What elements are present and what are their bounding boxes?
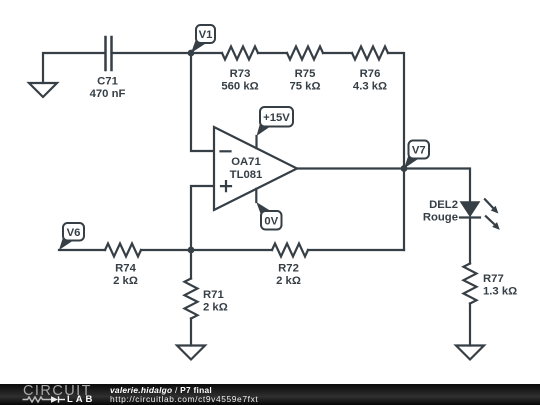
svg-text:2 kΩ: 2 kΩ	[203, 302, 228, 314]
svg-text:+15V: +15V	[263, 112, 290, 124]
svg-text:Rouge: Rouge	[423, 211, 458, 223]
svg-text:R77: R77	[483, 273, 504, 285]
svg-text:75 kΩ: 75 kΩ	[289, 81, 320, 93]
svg-text:R74: R74	[115, 263, 136, 275]
svg-text:2 kΩ: 2 kΩ	[276, 275, 301, 287]
svg-text:560 kΩ: 560 kΩ	[221, 81, 258, 93]
svg-text:1.3 kΩ: 1.3 kΩ	[483, 286, 517, 298]
svg-text:0V: 0V	[264, 216, 278, 228]
svg-text:R71: R71	[203, 289, 224, 301]
svg-text:R76: R76	[360, 68, 381, 80]
svg-text:R73: R73	[230, 68, 251, 80]
svg-text:V7: V7	[412, 145, 426, 157]
svg-text:470 nF: 470 nF	[90, 88, 126, 100]
svg-text:V1: V1	[199, 29, 213, 41]
svg-text:V6: V6	[67, 227, 81, 239]
svg-text:4.3 kΩ: 4.3 kΩ	[353, 81, 387, 93]
svg-text:DEL2: DEL2	[429, 199, 458, 211]
svg-text:OA71: OA71	[231, 156, 261, 168]
svg-text:2 kΩ: 2 kΩ	[113, 275, 138, 287]
svg-text:TL081: TL081	[230, 169, 263, 181]
svg-text:C71: C71	[97, 75, 118, 87]
svg-text:R75: R75	[295, 68, 316, 80]
svg-text:R72: R72	[278, 263, 299, 275]
